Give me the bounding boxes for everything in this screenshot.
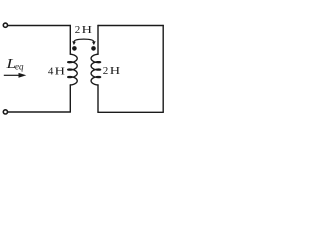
svg-text:H: H	[110, 65, 120, 77]
inductor L2 2H	[91, 54, 101, 85]
polarity dot left	[72, 46, 77, 51]
wire: right loop bottom horizontal	[98, 111, 163, 113]
svg-text:2: 2	[75, 24, 81, 36]
svg-text:H: H	[82, 23, 92, 35]
wire: right loop right vertical	[162, 26, 164, 113]
terminal: top-left input	[3, 23, 7, 27]
wire: left vertical upper lead	[69, 26, 71, 55]
wire: bottom horizontal	[8, 111, 71, 113]
polarity dot right	[91, 46, 96, 51]
svg-text:4: 4	[48, 66, 54, 78]
wire: left vertical lower lead	[69, 85, 71, 112]
wire: right branch lower lead	[97, 85, 99, 112]
terminal: bottom-left input	[3, 110, 7, 114]
wire: top horizontal	[8, 25, 71, 27]
arrowhead left end of coupling arc	[72, 41, 76, 45]
arrowhead right end of coupling arc	[92, 41, 96, 45]
wire: right loop top horizontal	[98, 25, 163, 27]
mutual coupling arc M = 2 H	[74, 39, 94, 42]
arrow under Leq	[4, 74, 19, 76]
svg-text:2: 2	[103, 65, 109, 77]
inductor L1 4H	[68, 54, 78, 85]
svg-text:eq: eq	[15, 61, 24, 71]
svg-text:H: H	[55, 65, 65, 77]
wire: right branch upper lead	[97, 26, 99, 55]
